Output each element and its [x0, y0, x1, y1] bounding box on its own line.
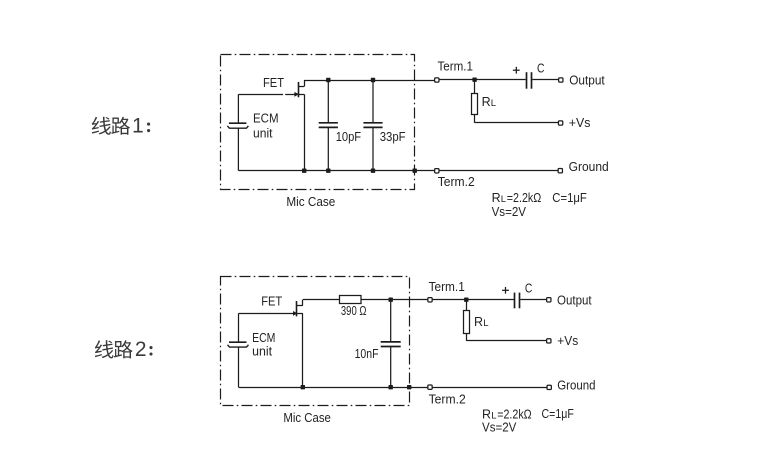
transistor Q1 (FET) [294, 80, 304, 97]
node Term.1 (circuit 1) [435, 78, 439, 82]
svg-text:C=1μF: C=1μF [552, 191, 587, 205]
svg-text:C: C [537, 61, 545, 75]
svg-text:Term.1: Term.1 [438, 59, 474, 73]
capacitor C coupling (circuit 2) [515, 293, 520, 309]
resistor 390 Ohm (circuit 2) [340, 296, 362, 304]
capacitor 10pF (circuit 1) [319, 80, 338, 171]
svg-text:FET: FET [263, 76, 284, 90]
junction: RL tap (circuit 1) [472, 78, 476, 82]
node Output (circuit 2) [547, 298, 551, 302]
svg-text:L: L [491, 98, 496, 109]
svg-text:33pF: 33pF [380, 130, 406, 144]
wire: gate segment at FET (circuit 1) [285, 94, 294, 96]
junction: FET source to rail (circuit 2) [301, 385, 305, 389]
node Output (circuit 1) [559, 78, 563, 82]
svg-text:2: 2 [135, 338, 147, 361]
svg-text:R: R [474, 315, 483, 329]
wire: cap to Output (circuit 2) [520, 299, 546, 301]
label: ECM unit [253, 111, 279, 140]
svg-text:Ground: Ground [557, 378, 595, 392]
junction: 10nF top (circuit 2) [389, 298, 393, 302]
svg-text:Mic Case: Mic Case [283, 411, 331, 425]
wire: ECM top / FET gate (circuit 1) [238, 94, 283, 96]
junction: C2 top (circuit 1) [371, 78, 375, 82]
svg-text:ECM: ECM [252, 331, 275, 345]
transistor Q2 (FET) [293, 300, 303, 317]
svg-text:Output: Output [569, 74, 605, 88]
wire: bottom rail / ground net (circuit 2) [239, 387, 429, 389]
svg-text:390 Ω: 390 Ω [341, 304, 367, 318]
svg-text:R: R [482, 407, 491, 421]
svg-text:FET: FET [261, 295, 282, 309]
label: 线路1: (circuit 1 heading) [92, 114, 150, 137]
svg-text:R: R [482, 95, 491, 109]
label: 线路2: (circuit 2 heading) [95, 338, 153, 361]
mic case enclosure (circuit 2) [221, 277, 410, 406]
node Ground (circuit 2) [547, 385, 551, 389]
svg-text:Term.2: Term.2 [429, 393, 466, 407]
wire: FET source drop (circuit 1) [304, 94, 306, 170]
capacitor 33pF (circuit 1) [363, 80, 382, 171]
label: ECM unit (circuit 2) [252, 331, 275, 359]
wire: bottom rail / ground net (circuit 1) [238, 170, 434, 172]
wire: top rail Term.1 (circuit 1) [304, 80, 434, 82]
svg-text:L: L [483, 318, 488, 329]
svg-text:Ground: Ground [569, 160, 609, 174]
mic case enclosure (circuit 1) [221, 55, 415, 190]
svg-text:unit: unit [253, 127, 273, 141]
wire: Term.2 to Ground (circuit 2) [432, 387, 546, 389]
capacitor 10nF (circuit 2) [381, 300, 401, 388]
wire: Term.2 to Ground (circuit 1) [439, 170, 558, 172]
node Ground (circuit 1) [558, 169, 562, 173]
svg-text:Vs=2V: Vs=2V [482, 420, 517, 434]
wire: FET source drop (circuit 2) [302, 313, 304, 387]
junction: case to ground rail (circuit 2) [407, 385, 411, 389]
svg-text:Mic Case: Mic Case [286, 195, 335, 209]
node Term.1 (circuit 2) [428, 298, 432, 302]
node +Vs (circuit 1) [558, 121, 562, 125]
wire: resistor to Term.1 (circuit 2) [361, 299, 428, 301]
wire: RL to +Vs (circuit 2) [466, 340, 546, 342]
svg-text:L: L [501, 194, 506, 205]
svg-text:Output: Output [557, 294, 592, 308]
node Term.2 (circuit 1) [435, 169, 439, 173]
junction: 10nF bottom (circuit 2) [389, 385, 393, 389]
svg-text:Vs=2V: Vs=2V [492, 205, 527, 219]
svg-text:10nF: 10nF [355, 347, 379, 361]
svg-text:C=1μF: C=1μF [542, 407, 575, 421]
node +Vs (circuit 2) [547, 339, 551, 343]
label: + polarity (circuit 2) [502, 289, 509, 291]
svg-text:=2.2kΩ: =2.2kΩ [507, 191, 542, 205]
wire: drain to resistor (circuit 2) [303, 299, 340, 301]
ECM capsule MK1 [227, 94, 248, 170]
node Term.2 (circuit 2) [428, 385, 432, 389]
svg-text:Term.1: Term.1 [429, 280, 465, 294]
svg-text:R: R [492, 191, 501, 205]
svg-text:=2.2kΩ: =2.2kΩ [497, 407, 532, 421]
label: + polarity (circuit 1) [513, 69, 520, 71]
junction: drain-C1 top (circuit 1) [326, 78, 330, 82]
svg-text:+Vs: +Vs [569, 116, 591, 130]
resistor RL (circuit 2) [464, 300, 470, 341]
resistor RL (circuit 1) [472, 80, 478, 123]
junction: RL tap (circuit 2) [464, 298, 468, 302]
wire: cap to Output (circuit 1) [532, 79, 558, 81]
junction: case to ground rail (circuit 1) [413, 169, 417, 173]
svg-text:Term.2: Term.2 [438, 175, 475, 189]
svg-text:unit: unit [252, 344, 272, 358]
svg-text:1: 1 [132, 114, 144, 137]
svg-text:C: C [525, 281, 533, 295]
ECM capsule MK2 [228, 313, 249, 387]
wire: Term.1 to coupling cap (circuit 1) [439, 79, 526, 81]
capacitor C coupling (circuit 1) [527, 72, 532, 89]
wire: Term.1 to coupling cap (circuit 2) [432, 299, 514, 301]
svg-text:10pF: 10pF [336, 130, 362, 144]
junction: FET source to rail (circuit 1) [302, 169, 306, 173]
junction: 33pF bottom (circuit 1) [371, 169, 375, 173]
svg-text:+Vs: +Vs [557, 334, 578, 348]
svg-text:ECM: ECM [253, 111, 279, 125]
wire: ECM top / FET gate (circuit 2) [239, 313, 294, 315]
wire: RL to +Vs (circuit 1) [475, 122, 559, 124]
junction: 10pF bottom (circuit 1) [326, 169, 330, 173]
